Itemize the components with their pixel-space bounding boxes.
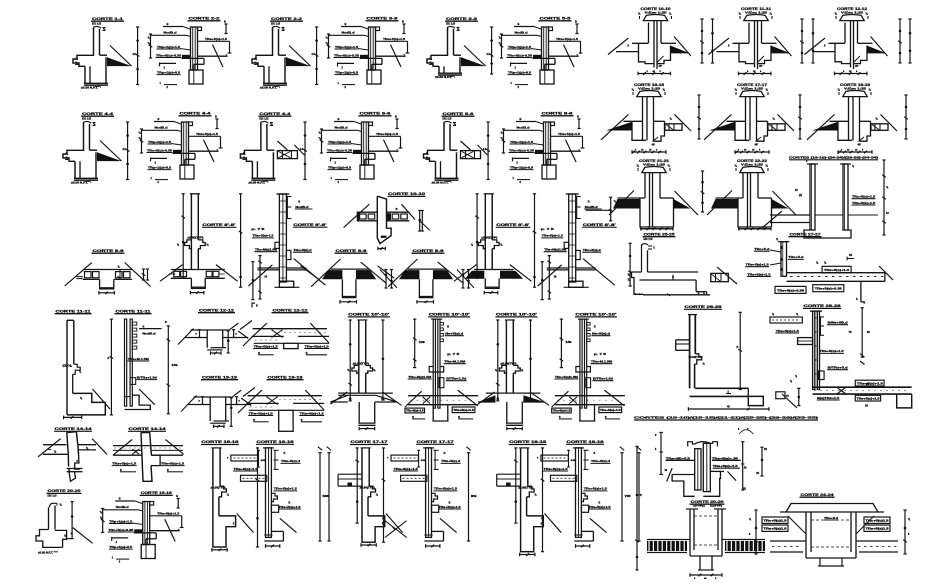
CORTE 16-16 left haunch solid fill [606,122,632,131]
CORTE 28-28 tall bracket [861,308,863,358]
CORTE 10'-10' stirrups [440,323,443,326]
svg-text:TRs+5(s)+1.5: TRs+5(s)+1.5 [112,461,137,465]
svg-text:1B: 1B [743,489,746,491]
svg-text:B: B [588,201,590,204]
CORTE 6-6 bearing pad box [461,151,481,159]
CORTE 2-2 slab line with label TRs+5(s)+1.5 [198,40,230,42]
svg-text:V:Esc 1:25: V:Esc 1:25 [645,10,668,14]
svg-text:CORTE 10'-10': CORTE 10'-10' [348,313,389,317]
CORTE 10-10 right slab band [387,211,410,213]
svg-text:45°: 45° [652,144,656,147]
CORTE 10'-10' boxed labels [405,408,425,413]
svg-text:V:Esc 1:25: V:Esc 1:25 [745,10,768,14]
CORTE 18-18 flanking dimension lines [905,95,907,139]
svg-text:TRp+1(p)+1.5: TRp+1(p)+1.5 [328,140,352,144]
CORTE 11-11 wall [66,320,68,415]
CORTE 3-3 small ledge note [337,62,339,66]
CORTE 18-18 right bracket ticks [584,450,586,469]
CORTE 9-9 bottom dimension [99,292,115,294]
svg-text:±0.00 N.P.T.: ±0.00 N.P.T. [435,75,452,79]
svg-text:B(s)TRs+1.5: B(s)TRs+1.5 [817,396,840,400]
svg-text:V:Esc 1:25: V:Esc 1:25 [643,162,666,166]
CORTE 16-16 lower wall [141,545,155,559]
svg-text:ESC 1:25: ESC 1:25 [259,116,268,120]
CORTE 10'-10' left dim [349,320,351,401]
CORTE 11-11 bottom steps [125,395,151,409]
CORTE 9-9 stem [99,279,101,287]
CORTE 10'-10' right dim [530,320,532,400]
CORTE 12-12 break diagonals [252,323,268,337]
CORTE 12-12 dotted texture [285,332,286,333]
CORTE 9-9 void boxes [85,272,92,278]
CORTE 14-14 X mark [132,449,139,454]
CORTE 8'-8' collars [564,242,569,248]
CORTE 13-13 slab band lines [248,395,322,397]
CORTE 17-17 bottom steps [368,516,385,542]
svg-text:B: B [520,117,522,121]
CORTE 12-12 right steps [866,46,868,54]
svg-text:TRs+5(s)+1.5: TRs+5(s)+1.5 [300,411,325,415]
CORTE 6-6 left bracket dimension [321,129,323,153]
svg-text:±0.00 N.P.T.: ±0.00 N.P.T. [248,180,265,184]
svg-text:TRs+5(s)+1.5: TRs+5(s)+1.5 [196,132,219,136]
CORTE 6-6 leader diagonal [478,145,488,155]
svg-text:TRc+5(c)+0.35: TRc+5(c)+0.35 [108,528,134,532]
CORTE 4-4 leader diagonal [204,140,215,162]
CORTE 2-2 lower wall [189,70,203,84]
svg-text:CORTE 3-3: CORTE 3-3 [367,17,398,21]
svg-text:CORTE 14-14: CORTE 14-14 [129,427,166,431]
svg-text:TRc+5(s)1.5M: TRc+5(s)1.5M [555,375,579,379]
CORTE 8-8 lower wall [542,165,556,179]
CORTE 16-16 top left note [115,500,135,502]
svg-text:CORTE 21-21: CORTE 21-21 [639,159,669,163]
CORTE 11-11 twin bars [125,319,127,406]
svg-text:V:Esc 1:25: V:Esc 1:25 [844,86,867,90]
CORTE 17-17 shaft [745,97,747,141]
CORTE 16-16 right dim [257,448,259,547]
CORTE 10'-10' wall [505,320,507,393]
CORTE 16-16 small ledge note [111,537,113,541]
svg-text:B: B [119,497,121,501]
CORTE 12-12 break diagonals [178,329,194,345]
CORTE 18-18 bottom steps [527,516,544,552]
CORTE 13-13 break diagonals [247,390,263,404]
CORTE 20-20 right steps [55,530,67,547]
svg-text:TRc+5(c)+0.35: TRc+5(c)+0.35 [334,53,360,57]
CORTE 10'-10' wall [358,320,360,393]
CORTE 26-26 right dim [739,312,741,389]
CORTE 18-18 bottom dim [576,545,590,547]
CORTE 16-16 diagonals [601,114,629,139]
CORTE 3-3 central wall [369,27,376,70]
svg-text:TRs+M.1.5M: TRs+M.1.5M [128,357,150,361]
svg-text:TRp+1(p)+0.5: TRp+1(p)+0.5 [328,165,352,169]
CORTE 8'-8' right bracket dim [586,209,611,211]
svg-text:TRs+5(s)+1.5: TRs+5(s)+1.5 [589,505,612,509]
svg-text:1B: 1B [764,449,767,451]
CORTE 16-16 right box [271,505,278,512]
svg-text:±0.00 N.P.T.: ±0.00 N.P.T. [38,551,53,555]
CORTE 17-17 capital [740,91,764,97]
svg-text:CORTES (19-19)-(24-24)/(29-29): CORTES (19-19)-(24-24)/(29-29)-(34-34) [789,156,878,160]
CORTE 8'-8' left dimension [182,194,184,278]
CORTE 18-18 break diagonal [590,518,607,532]
svg-text:V:Esc 1:25: V:Esc 1:25 [841,10,864,14]
svg-text:ESC 1:25: ESC 1:25 [446,21,455,25]
svg-text:TRs+5(s)+1.5: TRs+5(s)+1.5 [857,398,881,401]
svg-text:45°: 45° [755,144,759,147]
svg-text:CORTE 4-4: CORTE 4-4 [259,112,290,116]
CORTE 11-11 mid notch [73,364,81,374]
CORTE 8-8 stepped slab outline [551,150,581,152]
svg-text:CORTE 17-17: CORTE 17-17 [737,83,767,87]
svg-text:V:Esc 1:25: V:Esc 1:25 [741,162,764,166]
svg-text:ESC 1:25: ESC 1:25 [271,21,280,25]
CORTE 27-27 slab band [787,272,885,274]
CORTE 11-11 bottom dim [64,416,82,418]
CORTE 12-12 right haunch solid fill [867,46,887,54]
svg-text:B: B [395,115,397,119]
CORTE 5-5 top left note [514,26,534,28]
CORTE 27-27 boxed label TRs+5(s)+1.0 [822,266,851,273]
CORTE 5-5 leader diagonal [564,45,575,67]
svg-text:B/TRs+1.5d: B/TRs+1.5d [137,375,157,379]
CORTE 11-11 diagonals [709,38,730,55]
CORTE 2-2 small ledge note [159,62,161,66]
svg-text:B: B [165,321,167,324]
CORTE 11-11 stirrups [132,322,137,325]
svg-text:CORTE 12-12: CORTE 12-12 [273,309,308,313]
CORTE 18-18 left dim [515,448,517,523]
CORTE 3-3 stem and footing [443,66,445,73]
CORTE 8'-8' right dimension [240,194,242,287]
CORTE 25-25 leader diagonal [717,267,737,284]
svg-text:TRs+M.1.5M: TRs+M.1.5M [591,360,613,364]
svg-text:CORTE 11-11: CORTE 11-11 [56,310,91,314]
CORTE 2-2 leader diagonal [213,45,224,67]
CORTE 8'-8' foot [279,281,293,287]
CORTE 5-5 left bracket dimension [501,34,503,58]
CORTE 13-13 stem [279,410,293,431]
CORTE 11-11 foot [67,393,105,415]
CORTE 16-16 right tall bracket [328,453,330,541]
CORTE 18-18 bottom dim [520,554,535,556]
svg-text:CORTE 27-27: CORTE 27-27 [790,233,821,237]
svg-text:CORTE 18-18: CORTE 18-18 [509,440,546,444]
CORTE 16-16 bottom dimension [632,151,666,153]
CORTE 9-9 break diagonals [311,259,340,287]
CORTE 3-3 top left note [341,26,361,28]
CORTE 10-10 slab wings [632,42,649,44]
CORTE 26-26 left arm [676,339,690,341]
CORTE 13-13 stem bottom marks [214,425,225,427]
CORTE 18-18 top left bracket [568,450,570,467]
CORTE 22-22 lower body [738,198,772,227]
svg-text:CORTE 10'-10': CORTE 10'-10' [496,313,537,317]
svg-text:±0.00(TYP): ±0.00(TYP) [689,357,703,359]
CORTE 9-9 end hatch [76,276,83,278]
CORTE 2-2 top left note [163,26,183,28]
CORTE 17-17 lower body [735,121,749,140]
CORTE 12-12 bottom dimension [835,73,868,75]
svg-text:CORTE 10'-10': CORTE 10'-10' [429,313,470,317]
CORTE 2-2 wall hook top [273,26,281,31]
svg-text:B: B [518,22,520,26]
CORTE 21-21 wings [618,197,646,199]
CORTE 6-6 stepped slab outline [369,150,399,152]
CORTE 17-17 left X mark [385,521,407,538]
CORTE 13-13 X cross mark [267,397,278,405]
CORTE 10'-10' stem [358,402,360,423]
CORTE 26-26 wall [689,315,691,389]
svg-text:TRc+5(c)+0.35: TRc+5(c)+0.35 [509,148,535,152]
CORTE 13-13 right dim [230,398,232,427]
CORTE 8'-8' break diagonals [454,265,477,282]
svg-text:ESC 1:25: ESC 1:25 [92,21,101,25]
svg-text:CORTE 16-16: CORTE 16-16 [634,83,664,87]
T-column break diagonals [667,468,672,481]
CORTE 16-16 shaft [642,97,644,141]
D19 wall bars [810,164,815,230]
CORTE 26-26 end toe [747,388,749,396]
CORTE 5-5 lower wall [540,70,554,84]
svg-text:1B: 1B [867,332,870,334]
CORTE 11-11 slab wings [733,42,750,44]
CORTE 6-6 slab line with label TRs+5(s)+1.5 [369,135,401,137]
CORTE 14-14 step box [75,455,80,469]
CORTE 22-22 right haunch solid fill [772,199,789,209]
CORTE 10'-10' collar [429,367,444,373]
svg-text:B: B [396,208,398,211]
CORTE 9-9 slab solid fill left [322,270,342,279]
svg-text:±0.00 N.P.T.: ±0.00 N.P.T. [71,180,88,184]
CORTE 10'-10' stirrups [587,323,590,326]
svg-text:CORTE 5-5: CORTE 5-5 [540,17,571,21]
CORTE 8'-8' break diagonals [160,265,183,282]
svg-text:TRs+5(s)+0.35: TRs+5(s)+0.35 [815,288,843,291]
CORTE 11-11 right tall bracket [167,326,169,414]
CORTE 10-10 capital [643,15,667,21]
svg-text:B: B [594,452,596,455]
CORTE 2-2 leader diagonal [289,46,311,67]
svg-text:CORTE 6-6: CORTE 6-6 [443,112,474,116]
CORTE 25-25 mid mark [672,275,674,280]
CORTE 17-17 wall bar [426,448,432,538]
CORTE 17-17 wall [361,448,363,542]
svg-text:TRc+5(c)+0.35: TRc+5(c)+0.35 [147,148,173,152]
CORTE 17-17 right bearing box [768,124,785,131]
CORTE 16-16 flanking dimension lines [698,95,700,139]
CORTE 25-25 bearing box [711,273,729,281]
CORTE 10'-10' collar [366,365,373,373]
CORTE 9-9 slab solid fill left [399,270,419,279]
T-column far right dim [761,447,763,476]
svg-text:TRc+5(s)+1.5: TRc+5(s)+1.5 [406,411,424,413]
CORTE 10'-10' foot [579,405,581,421]
svg-text:TRp+1(p)+0.5: TRp+1(p)+0.5 [335,70,359,74]
svg-text:TRs+5(s)+1.5: TRs+5(s)+1.5 [205,37,228,41]
svg-text:CORTE 8'-8': CORTE 8'-8' [583,223,616,227]
T-column left bracket [660,432,662,474]
CORTE 17-17 slab wings [727,120,746,122]
CORTE 17-17 right dim [383,448,385,542]
svg-text:CORTE 16-16: CORTE 16-16 [141,491,172,495]
wall section CORTE 8'-8' [484,194,486,270]
CORTE 11-11 bottom dimension [739,73,772,75]
svg-text:CORTE 17-17: CORTE 17-17 [351,440,388,444]
CORTE 3-3 left bracket dimension [328,34,330,58]
svg-text:CORTE 24-24: CORTE 24-24 [801,493,834,497]
CORTE 8-8 central wall [544,122,551,165]
svg-text:TRc+5(s)+1.5: TRc+5(s)+1.5 [584,487,608,491]
CORTE 10'-10' bottom dim [507,428,523,430]
CORTE 16-16 wall [212,448,214,547]
svg-text:CORTE 9-9: CORTE 9-9 [413,249,444,253]
CORTE 12-12 X cross mark [272,330,283,338]
CORTE 10'-10' footing [338,392,393,394]
CORTE 26-26 bottom leg [694,383,696,389]
CORTE 10'-10' right dim [382,320,384,400]
CORTE 16-16 lower body [632,121,646,140]
CORTE 17-17 bottom dim [361,544,376,546]
svg-text:B: B [167,22,169,26]
svg-text:TRp+1(p)+0.5: TRp+1(p)+0.5 [157,70,181,74]
svg-text:TRs+5(s)+1.5: TRs+5(s)+1.5 [746,263,770,267]
svg-text:CORTE 10-10: CORTE 10-10 [641,7,671,11]
svg-text:NcdB.d: NcdB.d [164,31,178,35]
CORTE 8'-8' left dims [548,256,550,299]
svg-text:NcdB.d: NcdB.d [335,126,349,130]
CORTE 10'-10' break diagonals [478,392,495,404]
CORTE 18-18 notch [527,486,535,497]
CORTE 6-6 stem and footing [440,161,442,178]
svg-text:TRs+5(s)+0.35: TRs+5(s)+0.35 [777,289,805,292]
CORTE 4-4 leader diagonal [294,145,304,155]
svg-text:ESC 1:25: ESC 1:25 [644,237,653,241]
svg-text:TRs+5(s)+1.5: TRs+5(s)+1.5 [376,132,399,136]
svg-text:B: B [176,494,178,498]
CORTE 12-12 stem [284,343,298,348]
CORTE 10-10 left slab band [357,211,378,213]
CORTE 18-18 break diagonal [545,514,562,533]
CORTE 3-3 right top bracket [403,24,405,34]
CORTE 11-11 capital [744,15,768,21]
CORTE 14-14 right slab arm [78,444,96,446]
svg-text:TRp+1(p)+1.5: TRp+1(p)+1.5 [508,45,532,49]
CORTE 10'-10' boxed labels [552,408,572,413]
CORTE 16-16 bottom steps [219,516,236,547]
svg-text:B: B [224,20,226,24]
CORTE 24-24 diagonals [788,516,806,534]
CORTE 16-16 wall bar [266,448,272,538]
CORTE 16-16 notch [219,486,227,497]
CORTE 24-24 bottom [806,557,856,559]
CORTE 8'-8' base stem [484,278,486,287]
svg-text:CORTE 6-6: CORTE 6-6 [360,112,391,116]
svg-text:CORTE 20-20: CORTE 20-20 [691,500,724,504]
CORTE 10-10 right dims [419,211,421,232]
svg-text:CORTE 1-1: CORTE 1-1 [92,17,123,21]
CORTE 10-10 diagonals [608,38,629,55]
CORTE 10'-10' stem [506,402,508,423]
svg-text:B/TRs+5.d: B/TRs+5.d [828,366,849,370]
svg-text:TRc+5(c)+0.35: TRc+5(c)+0.35 [507,53,533,57]
CORTE 18-18 slab wings [830,120,849,122]
D19 slab lines [770,214,810,216]
CORTE 6-6 wall hook top [444,121,452,126]
CORTE 8-8 top left note [516,121,536,123]
CORTE 1-1 stem and footing [89,66,91,83]
svg-text:TRs+5(s)+1.5: TRs+5(s)+1.5 [852,201,876,205]
svg-text:TRc+5(s)+1.5: TRc+5(s)+1.5 [274,487,298,491]
CORTE 17-17 flanking dimension lines [799,95,801,139]
CORTE 14-14 skewed wall [141,433,151,456]
CORTE 21-21 bottom ticks [641,228,673,230]
CORTE 13-13 slab lines [194,396,232,398]
svg-text:±0.00 N.P.T.: ±0.00 N.P.T. [81,85,98,89]
svg-text:CORTE 22-22: CORTE 22-22 [737,159,767,163]
CORTE 10-10 wall bottom mark [381,236,387,238]
CORTE 14-14 break diagonals [38,439,61,457]
CORTE 11-11 shaft [754,21,756,68]
CORTE 2-2 central wall [191,27,198,70]
CORTE 16-16 bottom dim [212,549,227,551]
CORTE 2-2 haunch solid fill [286,57,311,66]
CORTE 9-9 right dim bracket [143,269,145,280]
CORTE 10'-10' break diagonals [405,391,422,407]
T-column right slab arm [710,470,724,472]
svg-text:B/TRs+1.5d: B/TRs+1.5d [446,377,466,381]
CORTE 4-4 wall outline [240,123,261,161]
CORTE 18-18 right box [581,505,588,512]
svg-text:CORTE 18-18: CORTE 18-18 [567,440,604,444]
CORTE 22-22 bottom ticks [739,228,771,230]
CORTE 21-21 shaft [649,173,651,227]
CORTE 2-2 wall outline [252,28,273,66]
svg-text:TRs+5(s)+1.5: TRs+5(s)+1.5 [776,329,800,333]
svg-text:B: B [158,117,160,121]
CORTE 20-20 left dim [636,446,638,570]
CORTE 16-16 right tall bracket [319,453,321,541]
CORTE 10'-10' foot [432,405,434,421]
CORTE 27-27 right end step [884,273,886,282]
CORTE 2-2 stepped slab outline [198,55,228,57]
CORTE 28-28 end toe [897,394,912,408]
svg-text:B: B [449,502,451,505]
CORTE 20-20 right hatched band [725,541,765,551]
CORTE 9-9 slab solid fill right [356,270,376,279]
svg-text:TRs+5(s)+1.5: TRs+5(s)+1.5 [453,409,475,412]
CORTE 11-11 right haunch solid fill [771,46,791,54]
CORTE 4-4 right dimension line [304,122,306,180]
svg-text:TRs+M.1.5M: TRs+M.1.5M [444,360,466,364]
CORTE 17-17 top left beam [391,455,418,461]
svg-text:TRs+5(s)+1.5: TRs+5(s)+1.5 [600,409,622,412]
CORTE 24-24 walls [805,512,807,558]
CORTE 8'-8' bottom dim [190,292,204,294]
CORTE 17-17 break diagonal [386,514,403,533]
CORTE 16-16 leader diagonal [165,519,176,541]
CORTE 20-20 break diagonal [73,528,93,544]
CORTE 1-1 right dimension line [137,27,139,85]
CORTE 12-12 flanking dimension lines [899,19,901,63]
CORTE 13-13 stem [209,397,211,421]
svg-text:CORTE 10-10: CORTE 10-10 [388,192,425,196]
svg-text:B: B [284,452,286,455]
CORTE 17-17 bottom dimension [735,151,769,153]
CORTE 10-10 flanking dimension lines [701,19,703,63]
